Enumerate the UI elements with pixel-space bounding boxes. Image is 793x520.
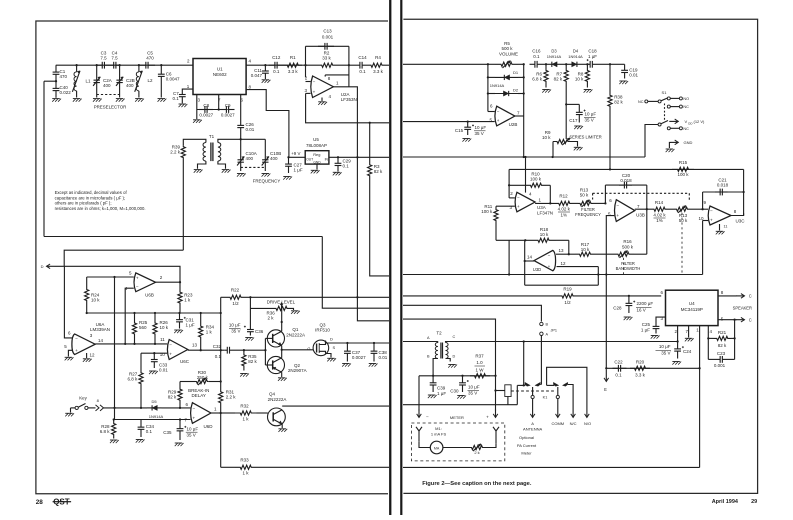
svg-text:NE602: NE602 [213, 72, 227, 77]
capacitor C25 [656, 317, 666, 321]
wire R19 line [403, 295, 555, 297]
wire U4 pin1 riser [699, 326, 701, 369]
right page frame [403, 19, 757, 493]
svg-text:−: − [497, 109, 500, 114]
gutter bar left [389, 0, 391, 515]
relay K1 pole1 contacts [525, 382, 530, 386]
meter MA [430, 441, 443, 454]
svg-text:+: + [548, 264, 551, 269]
svg-text:0.01: 0.01 [159, 368, 168, 373]
svg-text:OUT: OUT [306, 158, 313, 162]
svg-text:MA: MA [434, 446, 440, 450]
ground R9 [572, 142, 578, 147]
capacitor C21 feedback [702, 192, 704, 209]
svg-text:capacitance are in microfarads: capacitance are in microfarads ( μF ); [55, 195, 125, 200]
wire U4 pin2 input [677, 326, 679, 342]
svg-text:400: 400 [103, 83, 111, 88]
svg-text:1N914A: 1N914A [490, 83, 505, 88]
capacitor C6 [160, 65, 162, 74]
svg-text:1N914A: 1N914A [547, 54, 562, 59]
svg-text:U3C: U3C [736, 218, 746, 223]
wire U3B pin5 riser [606, 216, 614, 369]
switch S1 gang dashed [664, 104, 666, 122]
capacitor C39 [432, 376, 434, 383]
left page frame [36, 21, 388, 494]
svg-text:28: 28 [36, 499, 44, 506]
svg-text:U6C: U6C [180, 359, 190, 364]
svg-text:ANTENNA: ANTENNA [523, 427, 542, 432]
svg-text:C15: C15 [455, 128, 464, 133]
svg-text:1 μF: 1 μF [588, 54, 597, 59]
svg-text:Meter: Meter [521, 451, 532, 456]
wire U6A pin5 to ground [68, 350, 73, 356]
wire R39 down to jog [182, 159, 184, 251]
svg-text:+: + [497, 118, 500, 123]
potentiometer R30 BREAK-IN DELAY [180, 381, 196, 383]
capacitor C18 [585, 63, 590, 65]
capacitor C38 [373, 343, 375, 351]
svg-text:0.1: 0.1 [173, 96, 180, 101]
bottom rail to page1 [403, 466, 700, 468]
relay dashed link [511, 390, 554, 392]
wire U3A supply riser [525, 157, 527, 193]
svg-text:C14: C14 [358, 55, 367, 60]
svg-text:1 mA FS: 1 mA FS [431, 432, 447, 437]
wire U6D output [211, 412, 221, 414]
wire U6A pin6 riser [64, 266, 73, 338]
capacitor C5 [139, 64, 146, 66]
capacitor C14 [349, 64, 354, 66]
svg-text:1%: 1% [656, 218, 663, 223]
svg-text:C30: C30 [450, 389, 459, 394]
meter terminal right [493, 427, 499, 431]
capacitor C9 [221, 109, 227, 111]
svg-text:0.022: 0.022 [60, 90, 72, 95]
ground C35 [175, 442, 183, 444]
IC U1 NE602 [193, 59, 246, 95]
svg-text:10 μF: 10 μF [585, 112, 597, 117]
diode D3 [548, 63, 561, 65]
wire T2 A line from drain [403, 341, 438, 343]
svg-text:0.047: 0.047 [251, 73, 263, 78]
svg-text:100 k: 100 k [677, 172, 689, 177]
resistor R33 [221, 466, 235, 468]
svg-text:82 k: 82 k [248, 359, 257, 364]
ground C17 [574, 125, 582, 127]
svg-text:NO: NO [683, 97, 689, 101]
relay contact pole1 throw [531, 395, 534, 398]
wire U6C output line [188, 349, 225, 351]
svg-text:1N914A: 1N914A [149, 414, 164, 419]
svg-text:3.3 k: 3.3 k [373, 69, 384, 74]
op-amp U6A [72, 334, 95, 355]
wire U4 pin5 speaker [718, 319, 735, 321]
ground U6A pin12 [86, 353, 88, 358]
svg-text:−: − [313, 79, 316, 84]
svg-text:−: − [616, 203, 619, 208]
wire U6A output [95, 343, 167, 345]
svg-text:DD: DD [688, 121, 692, 125]
svg-text:35 V: 35 V [468, 391, 477, 396]
potentiometer R9 SERIES LIMITER [553, 139, 572, 143]
capacitor C19 [610, 63, 625, 65]
svg-text:C: C [749, 294, 752, 299]
wire R22 line [221, 296, 227, 298]
svg-text:1 μF: 1 μF [437, 391, 446, 396]
svg-text:C: C [749, 318, 752, 323]
wire net D to U6B output [55, 266, 181, 282]
wire U3A output [535, 202, 557, 204]
diode D4 [568, 63, 583, 65]
capacitor C40 [55, 81, 57, 88]
wire main input bus [56, 64, 193, 66]
svg-text:14: 14 [98, 338, 104, 343]
svg-text:U6D: U6D [203, 424, 213, 429]
wire audio drop to gutter [357, 297, 389, 321]
svg-text:560: 560 [139, 325, 147, 330]
svg-text:U3B: U3B [636, 213, 645, 218]
svg-text:+: + [517, 204, 520, 209]
svg-text:LF353N: LF353N [341, 97, 357, 102]
svg-text:0.01: 0.01 [246, 127, 255, 132]
svg-text:D3: D3 [551, 49, 557, 54]
svg-text:IRF510: IRF510 [315, 328, 330, 333]
jumper JP1 [403, 305, 541, 321]
svg-text:NC: NC [683, 105, 689, 109]
wire U6D pin7 line [114, 419, 191, 421]
svg-text:R20: R20 [636, 360, 645, 365]
capacitor C28 [628, 296, 630, 303]
resistor R35 [242, 350, 246, 370]
resistor R27 [140, 353, 142, 366]
diode D5 [147, 407, 162, 409]
capacitor C24 [677, 342, 679, 349]
svg-text:U2B: U2B [509, 122, 518, 127]
svg-text:C16: C16 [532, 49, 541, 54]
ground C7 [179, 103, 187, 105]
bus comparator supply [87, 312, 221, 314]
svg-text:0.0047: 0.0047 [166, 77, 180, 82]
svg-text:2N2222A: 2N2222A [268, 397, 287, 402]
potentiometer R13b [667, 208, 674, 210]
wire R9 to 12V rail [552, 142, 554, 158]
wire C22 R20 line [606, 367, 699, 369]
inductor L2 [138, 65, 140, 72]
wire relay/meter riser [403, 319, 496, 376]
resistor R26 [153, 313, 157, 344]
ground C24 [672, 361, 680, 363]
svg-text:Q4: Q4 [269, 392, 276, 397]
ground R28 [110, 439, 118, 441]
svg-text:3.3 k: 3.3 k [288, 69, 299, 74]
svg-text:G: G [307, 346, 310, 351]
potentiometer R16 FILTER BANDWIDTH [613, 252, 634, 256]
svg-text:April 1994: April 1994 [712, 499, 739, 505]
svg-text:1 W: 1 W [475, 368, 484, 373]
ground R36 [291, 310, 299, 312]
diode D2 [488, 93, 495, 95]
resistor R14 [652, 207, 667, 211]
capacitor C1 [55, 65, 57, 72]
gang link C2A-C2B dashed [97, 94, 120, 96]
svg-text:400: 400 [126, 83, 134, 88]
ground L2 [135, 98, 143, 100]
capacitor C17 [566, 103, 579, 105]
svg-text:D: D [330, 337, 333, 342]
svg-text:6.8 k: 6.8 k [532, 77, 543, 82]
svg-text:0.01: 0.01 [379, 355, 388, 360]
svg-text:1N914A: 1N914A [568, 54, 583, 59]
svg-text:R32: R32 [240, 404, 249, 409]
regulator rail +9V [289, 156, 306, 158]
svg-text:Figure 2—See caption on the ne: Figure 2—See caption on the next page. [422, 481, 532, 487]
svg-text:U3A: U3A [537, 205, 546, 210]
svg-text:N/O: N/O [584, 421, 591, 426]
svg-text:10 μF: 10 μF [229, 323, 241, 328]
svg-text:C: C [453, 335, 456, 339]
svg-text:+: + [75, 348, 78, 353]
svg-text:SPEAKER: SPEAKER [733, 306, 752, 311]
capacitor C16 [530, 63, 535, 65]
wire U3C pin9 [703, 208, 708, 210]
ground C40 [52, 98, 60, 100]
svg-text:4.02 k: 4.02 k [558, 207, 571, 212]
svg-text:U5: U5 [313, 137, 319, 142]
resistor R12 [557, 201, 572, 205]
svg-text:−: − [517, 195, 520, 200]
svg-text:VOLUME: VOLUME [499, 51, 518, 56]
svg-text:1 k: 1 k [206, 330, 213, 335]
resistor R31 [219, 382, 223, 414]
wire key line [88, 407, 96, 409]
svg-text:0.018: 0.018 [717, 183, 729, 188]
ground T2 D [448, 364, 456, 366]
svg-text:50 k: 50 k [679, 218, 688, 223]
svg-text:2N2222A: 2N2222A [286, 332, 305, 337]
wire Q3 drain line [326, 341, 390, 344]
ground U4 pin7 [688, 326, 690, 338]
capacitor C10B [241, 138, 266, 140]
gang link C10 dashed [241, 166, 266, 168]
svg-text:C25: C25 [642, 322, 651, 327]
ground C11 [262, 79, 270, 81]
svg-text:35 V: 35 V [231, 329, 240, 334]
svg-text:C18: C18 [588, 49, 597, 54]
svg-text:1 μF: 1 μF [641, 328, 650, 333]
op-amp U2A [311, 76, 334, 98]
svg-text:0.1: 0.1 [273, 69, 280, 74]
svg-text:−: − [75, 336, 78, 341]
dashed gang box filter [593, 192, 690, 194]
capacitor C26 [240, 123, 242, 126]
resistor R15 [672, 167, 694, 171]
ground Q3 source [326, 354, 332, 358]
svg-text:0.01: 0.01 [629, 73, 638, 78]
resistor R17 [569, 253, 575, 255]
svg-text:6.8 k: 6.8 k [100, 429, 111, 434]
svg-text:−: − [548, 253, 551, 258]
resistor R38 [609, 64, 611, 89]
ground C37 [342, 363, 350, 365]
ground C39 [428, 394, 436, 396]
feedback box U2A [304, 64, 306, 66]
IC U4 MC34119P [666, 290, 719, 325]
svg-text:E: E [604, 387, 607, 392]
capacitor C2A [96, 65, 98, 80]
ground C10A [237, 173, 245, 175]
svg-text:A: A [531, 421, 534, 426]
capacitor C34 [140, 420, 142, 428]
wiper R36 arrow [281, 304, 283, 311]
wire U3B output [635, 208, 652, 210]
switch S1 pole VDD [658, 123, 661, 126]
svg-text:NC: NC [683, 127, 689, 131]
resistor R28 [112, 420, 116, 439]
wire U3D lower loop [525, 284, 599, 286]
wire C10 feed [240, 139, 242, 151]
wire U3A pin3 and R11 [496, 205, 515, 207]
resistor R24 [85, 277, 89, 313]
ground C29 [333, 171, 341, 173]
svg-text:C22: C22 [614, 360, 623, 365]
svg-text:78L008AP: 78L008AP [306, 143, 327, 148]
wire U3C pin10 riser [703, 220, 708, 222]
capacitor C20 box [604, 185, 606, 203]
capacitor C36 [249, 297, 251, 326]
svg-text:T1: T1 [209, 134, 215, 139]
svg-text:0.1: 0.1 [146, 429, 153, 434]
svg-text:12: 12 [561, 261, 567, 266]
svg-text:+: + [710, 217, 713, 222]
svg-text:400: 400 [270, 156, 278, 161]
capacitor C30 [462, 376, 464, 383]
resistor R3 [369, 123, 371, 159]
svg-text:COMM: COMM [551, 421, 564, 426]
wire relay pole1 feed [516, 385, 518, 404]
capacitor C4 [110, 64, 114, 66]
wire meter minus drop [418, 376, 420, 411]
resistor R18 line [496, 239, 531, 241]
ground C2A [93, 98, 101, 100]
wire U6B pin4 riser [125, 288, 134, 344]
svg-text:C13: C13 [323, 29, 332, 34]
svg-text:2 k: 2 k [268, 316, 275, 321]
ground C15 [462, 138, 470, 140]
svg-text:−: − [192, 406, 195, 411]
feedback rail R15 [508, 169, 510, 198]
svg-text:1/2: 1/2 [232, 301, 239, 306]
svg-text:7.5: 7.5 [111, 56, 118, 61]
svg-text:FREQUENCY: FREQUENCY [575, 212, 601, 217]
svg-text:1/2: 1/2 [564, 300, 571, 305]
svg-text:C35: C35 [163, 430, 172, 435]
node to net D riser [55, 80, 57, 82]
svg-text:0.001: 0.001 [714, 363, 726, 368]
svg-text:Reg: Reg [313, 152, 320, 157]
resistor R20 [630, 366, 650, 370]
wire U3D output [525, 260, 534, 262]
svg-text:D: D [41, 264, 44, 269]
svg-text:D1: D1 [513, 70, 519, 75]
svg-text:0.1: 0.1 [533, 54, 540, 59]
ground C6 [158, 98, 166, 100]
wire U2A pin3 riser to audio return [306, 93, 389, 122]
svg-text:T2: T2 [436, 331, 442, 336]
svg-text:C12: C12 [272, 55, 281, 60]
svg-text:250 k: 250 k [197, 375, 209, 380]
svg-text:R33: R33 [240, 458, 249, 463]
svg-text:2.2 k: 2.2 k [226, 395, 237, 400]
svg-text:13: 13 [559, 248, 565, 253]
svg-text:0.0027: 0.0027 [221, 113, 235, 118]
resistor R37 [470, 374, 490, 378]
svg-text:100 k: 100 k [530, 177, 542, 182]
svg-text:D4: D4 [573, 49, 579, 54]
ground U6A pin5 [65, 356, 73, 358]
svg-text:R15: R15 [679, 160, 688, 165]
svg-text:1 k: 1 k [242, 417, 249, 422]
svg-text:400: 400 [246, 156, 254, 161]
wire node R22 riser [220, 297, 222, 381]
svg-text:−: − [710, 209, 713, 214]
svg-text:+: + [616, 213, 619, 218]
svg-text:470: 470 [60, 74, 68, 79]
capacitor C29 [337, 157, 339, 163]
svg-text:LM339AN: LM339AN [90, 327, 110, 332]
svg-text:11: 11 [724, 224, 728, 228]
potentiometer R13a FILTER FREQUENCY [572, 202, 579, 204]
svg-text:R12: R12 [559, 194, 568, 199]
svg-text:S1: S1 [662, 90, 668, 95]
svg-text:U4: U4 [689, 301, 695, 306]
svg-text:C24: C24 [683, 349, 692, 354]
wire Q1 Q2 base tie [264, 338, 266, 365]
svg-text:R22: R22 [231, 288, 240, 293]
wire U2A output [333, 87, 357, 297]
svg-text:U6B: U6B [145, 293, 154, 298]
svg-text:4.02 k: 4.02 k [653, 212, 666, 217]
svg-text:1.0: 1.0 [476, 360, 483, 365]
svg-text:10 k: 10 k [581, 247, 590, 252]
svg-text:R21: R21 [718, 330, 727, 335]
svg-text:K1: K1 [543, 396, 548, 400]
capacitor C27 [288, 157, 290, 164]
capacitor C3 [97, 64, 103, 66]
svg-text:1 k: 1 k [242, 471, 249, 476]
capacitor C12 [269, 64, 275, 66]
svg-text:C23: C23 [717, 351, 726, 356]
wire antenna drop [532, 387, 534, 395]
wire R36 wiper to Q1 [281, 308, 283, 322]
resistor R2 [306, 63, 349, 67]
ground C19 [619, 80, 627, 82]
resistor R7 [564, 64, 568, 87]
svg-text:470: 470 [146, 56, 154, 61]
svg-text:0.1: 0.1 [615, 373, 622, 378]
ground U3C [719, 224, 721, 231]
op-amp U2B [495, 106, 515, 126]
wire limiter box [487, 64, 489, 111]
svg-text:D5: D5 [151, 399, 157, 404]
wire U6B output node [156, 281, 180, 283]
svg-text:L1: L1 [86, 79, 92, 84]
ground C2B [116, 98, 124, 100]
diode D1 [488, 76, 495, 78]
svg-text:C28: C28 [613, 306, 622, 311]
svg-text:−: − [426, 414, 429, 419]
svg-text:10 μF: 10 μF [187, 427, 199, 432]
svg-text:10 μF: 10 μF [475, 125, 487, 130]
